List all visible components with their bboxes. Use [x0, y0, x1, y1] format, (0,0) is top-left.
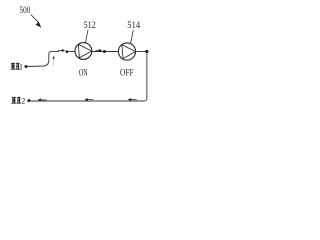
small up arrow on riser: [52, 56, 54, 66]
flow arrow between pumps: [96, 49, 103, 52]
svg-text:514: 514: [127, 20, 140, 30]
svg-text:1: 1: [19, 63, 23, 72]
arrow from 500: [31, 15, 41, 28]
svg-text:2: 2: [21, 97, 25, 106]
node dot pump1: [25, 65, 28, 68]
node label pump2 text: [11, 97, 21, 103]
flow arrow bottom right: [128, 98, 137, 101]
wire from pump1 label to elbow: [28, 52, 60, 67]
flow arrow before pump 512: [58, 49, 65, 52]
flow arrow bottom near label: [38, 98, 47, 101]
wire from pump 514 to junction: [136, 51, 146, 53]
svg-text:ON: ON: [79, 68, 88, 78]
svg-text:512: 512: [84, 20, 96, 30]
node label pump1 text: [11, 63, 20, 69]
node dot pump2: [27, 99, 30, 102]
pump 512: [75, 43, 92, 60]
junction dot between pumps: [103, 50, 106, 53]
wire between pumps: [92, 51, 119, 53]
leader line 512: [85, 30, 88, 43]
pump 514: [118, 43, 135, 60]
svg-text:500: 500: [20, 5, 31, 15]
junction dot before pump 512: [66, 50, 69, 53]
flow arrow bottom middle: [84, 98, 93, 101]
svg-text:OFF: OFF: [120, 68, 134, 78]
leader line 514: [131, 30, 134, 43]
wire right vertical and bottom return: [30, 53, 147, 101]
junction node dot right: [145, 50, 148, 53]
wire into pump 512: [69, 51, 76, 53]
